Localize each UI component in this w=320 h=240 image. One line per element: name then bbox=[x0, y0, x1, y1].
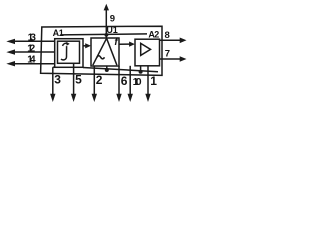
pin 7 arrowhead bbox=[180, 56, 187, 62]
svg-text:13: 13 bbox=[28, 33, 37, 44]
pin 12 wire bbox=[14, 51, 55, 53]
pin 3 stub inside box bbox=[53, 66, 55, 68]
pin 8 arrowhead bbox=[180, 38, 187, 44]
pin 13 wire bbox=[14, 40, 55, 42]
svg-text:7: 7 bbox=[165, 49, 170, 60]
pin 14 arrowhead bbox=[6, 61, 15, 66]
bias wire over U1 bbox=[60, 34, 147, 35]
U1 triangle right leg bbox=[107, 38, 117, 65]
pin 6 wire bbox=[118, 66, 120, 95]
pin 1 wire bbox=[147, 66, 149, 95]
pin 9 wire bbox=[105, 10, 107, 39]
svg-text:1: 1 bbox=[113, 25, 118, 35]
junction dot A2 bottom bbox=[139, 70, 143, 74]
wire A1 to U1 bbox=[83, 45, 87, 47]
svg-text:14: 14 bbox=[27, 55, 36, 66]
arrowhead into A2 bbox=[129, 42, 135, 47]
block A2 box bbox=[135, 39, 160, 66]
pin 13 arrowhead bbox=[6, 39, 15, 44]
pin 7 wire bbox=[160, 58, 182, 60]
pin 3 arrowhead bbox=[50, 94, 55, 102]
pin 10 arrowhead bbox=[128, 94, 133, 102]
svg-text:9: 9 bbox=[110, 14, 115, 25]
outer box bbox=[41, 26, 162, 75]
pin 14 wire bbox=[14, 63, 55, 65]
A2 amplifier triangle bbox=[141, 43, 151, 55]
svg-text:5: 5 bbox=[75, 73, 82, 87]
U1 bottom pin stub bbox=[106, 66, 108, 70]
svg-text:0: 0 bbox=[136, 76, 142, 88]
A2 bottom pin stub bbox=[140, 66, 142, 72]
pin 10 wire bbox=[129, 66, 131, 95]
pin 2 arrowhead bbox=[92, 94, 97, 102]
svg-text:1: 1 bbox=[59, 28, 64, 38]
pin 5 wire bbox=[73, 63, 75, 94]
block U1 box bbox=[91, 38, 119, 66]
svg-text:6: 6 bbox=[121, 74, 128, 88]
integrator symbol top swoosh bbox=[63, 43, 68, 46]
wire U1 to A2 bbox=[119, 43, 130, 45]
pin 3 wire bbox=[52, 67, 54, 94]
pin 12 arrowhead bbox=[6, 49, 15, 54]
arrowhead into U1 bbox=[85, 43, 91, 48]
pin 1 arrowhead bbox=[145, 94, 150, 102]
pin 6 arrowhead bbox=[116, 94, 121, 102]
svg-text:2: 2 bbox=[154, 29, 159, 39]
pin 5 arrowhead bbox=[71, 94, 76, 102]
junction dot pin 9 bbox=[105, 33, 109, 37]
svg-text:8: 8 bbox=[165, 30, 170, 41]
pin 2 wire bbox=[93, 66, 95, 95]
integrator sub-box bbox=[58, 41, 80, 63]
svg-text:12: 12 bbox=[27, 44, 35, 55]
pin 8 wire bbox=[160, 39, 182, 41]
block A1 box bbox=[55, 39, 83, 68]
svg-text:2: 2 bbox=[96, 73, 103, 87]
integrator symbol stem bbox=[61, 46, 67, 60]
integrator symbol arrowhead bbox=[66, 42, 69, 46]
pin 9 arrowhead bbox=[104, 4, 109, 11]
U1 sine symbol bbox=[97, 56, 105, 59]
svg-text:1: 1 bbox=[150, 74, 157, 88]
U1 triangle left leg bbox=[93, 38, 107, 65]
junction dot U1 bottom bbox=[105, 68, 109, 72]
bottom bus wire bbox=[83, 68, 158, 72]
svg-text:3: 3 bbox=[54, 73, 61, 87]
